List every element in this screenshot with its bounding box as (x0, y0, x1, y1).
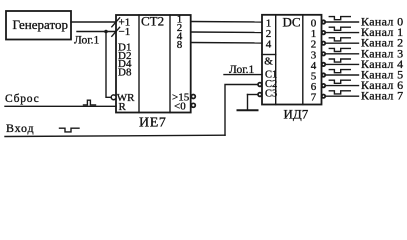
net label Log.1 wire to C1 pin (224, 74, 262, 76)
pulse symbol channel 4 (329, 59, 350, 62)
svg-text:ИД7: ИД7 (284, 107, 309, 122)
svg-text:Вход: Вход (6, 121, 34, 135)
inversion bubble output 1 (322, 31, 325, 34)
net Sbros wire to R pin (5, 105, 116, 107)
inversion bubble on <0 output (191, 103, 195, 107)
wire: counter output 4 to decoder input 4 (191, 42, 262, 45)
svg-text:D8: D8 (118, 66, 132, 78)
wire channel 1 (326, 32, 359, 34)
wire: ground to C3 pin (248, 94, 258, 96)
inversion bubble on C3 pin (258, 93, 262, 97)
positive pulse symbol on Sbros wire (84, 100, 96, 105)
wire channel 4 (326, 63, 359, 65)
ground symbol (247, 95, 249, 111)
svg-text:Лог.1: Лог.1 (74, 35, 100, 47)
decoder U2 ID7 outer box (262, 15, 322, 105)
wire: Log.1 net to counter -1 pin (77, 31, 116, 33)
wire: junction down to WR pin (106, 32, 112, 98)
inversion bubble output 0 (322, 20, 325, 23)
net Vhod wire along bottom (5, 135, 225, 136)
svg-text:&: & (264, 56, 273, 68)
svg-text:R: R (119, 101, 127, 113)
pulse symbol channel 7 (329, 91, 350, 94)
inversion bubble on >15 output (191, 95, 195, 99)
svg-text:Генератор: Генератор (13, 17, 68, 32)
svg-text:Канал 7: Канал 7 (361, 89, 403, 103)
counter U1 IE7 outer box (116, 15, 191, 113)
node: junction on Log.1 wire (104, 30, 108, 34)
decoder right field divider (302, 15, 304, 105)
wire channel 0 (326, 21, 359, 23)
svg-text:<0: <0 (174, 100, 186, 112)
wire channel 2 (326, 42, 359, 44)
inversion bubble output 2 (322, 42, 325, 45)
wire channel 5 (326, 74, 359, 76)
wire channel 7 (326, 95, 359, 97)
pulse symbol channel 1 (329, 27, 350, 30)
decoder enable section separator (262, 54, 276, 56)
svg-text:4: 4 (266, 38, 272, 50)
wire: counter output 2 to decoder input 2 (191, 31, 262, 34)
svg-text:7: 7 (311, 92, 317, 104)
inversion bubble output 6 (322, 84, 325, 87)
pulse symbol channel 6 (329, 80, 350, 83)
wire: Vhod riser up to C2 pin (225, 85, 258, 136)
generator G1 box (6, 11, 71, 40)
wire channel 6 (326, 85, 359, 87)
svg-text:Лог.1: Лог.1 (229, 64, 255, 76)
wire: generator output to counter +1 pin (71, 21, 116, 23)
wire channel 3 (326, 53, 359, 55)
pulse symbol channel 5 (329, 70, 350, 73)
inversion bubble output 4 (322, 63, 325, 66)
inversion bubble on C2 pin (258, 83, 262, 87)
dynamic input slash on +1 pin (112, 18, 120, 27)
inversion bubble on WR pin (111, 95, 116, 100)
inversion bubble output 5 (322, 73, 325, 76)
inversion bubble output 7 (322, 95, 325, 98)
negative pulse symbol on Vhod wire (60, 128, 80, 132)
pulse symbol channel 0 (329, 17, 350, 20)
svg-text:ИЕ7: ИЕ7 (139, 116, 166, 131)
svg-text:DC: DC (283, 15, 301, 30)
counter right field divider (169, 15, 171, 113)
pulse symbol channel 2 (329, 38, 350, 41)
dynamic input slash on -1 pin (112, 27, 120, 36)
decoder left field divider (275, 15, 277, 105)
pulse symbol channel 3 (329, 48, 350, 51)
svg-text:CT2: CT2 (141, 14, 164, 29)
wire: counter output 1 to decoder input 1 (191, 21, 262, 24)
inversion bubble output 3 (322, 52, 325, 55)
svg-text:C3: C3 (265, 89, 277, 100)
svg-text:8: 8 (177, 39, 183, 51)
svg-text:Сброс: Сброс (5, 93, 40, 105)
counter left field divider (138, 15, 140, 113)
svg-text:−1: −1 (119, 26, 131, 38)
